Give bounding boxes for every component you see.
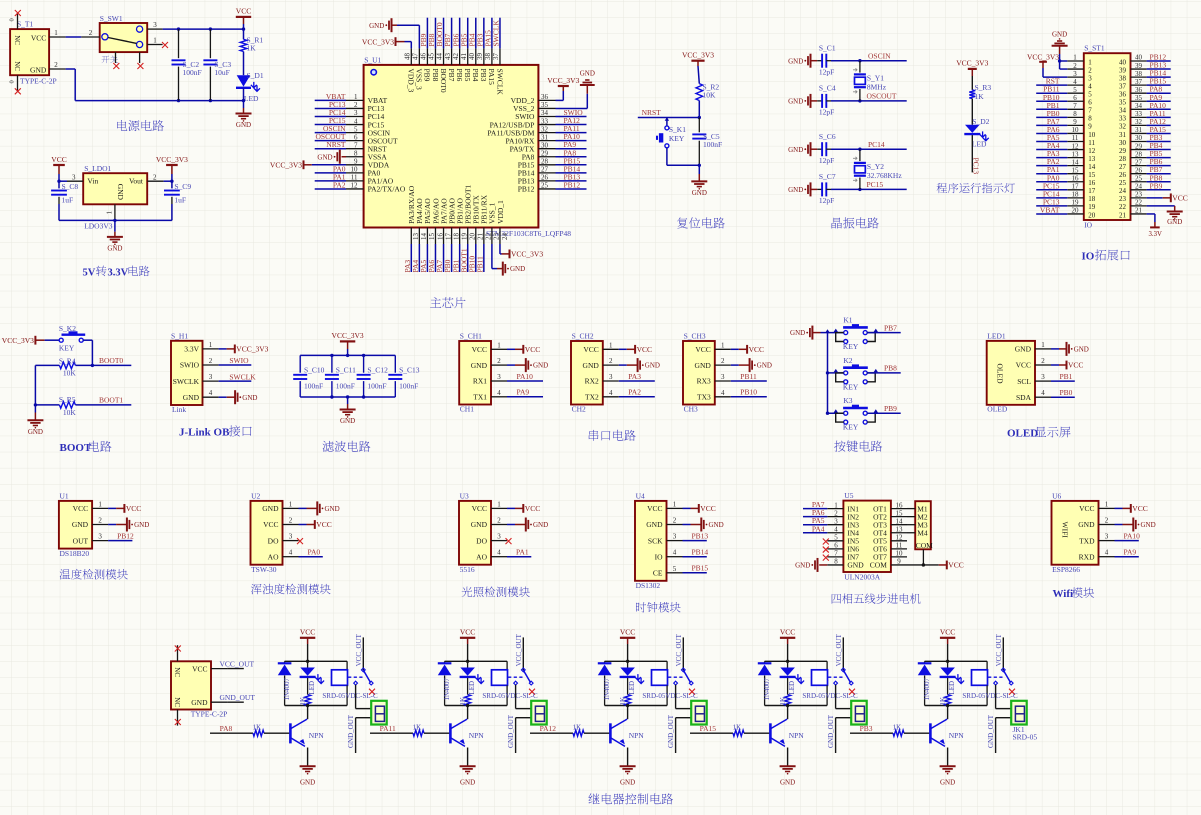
pin 21 of ST1 bbox=[1131, 207, 1147, 215]
svg-text:VBAT: VBAT bbox=[1040, 205, 1060, 214]
stub M COM pin down bbox=[922, 549, 924, 565]
power port 3.3V at ST1 pin21 bbox=[1147, 214, 1162, 238]
svg-text:SRD-05VDC-SL-C: SRD-05VDC-SL-C bbox=[802, 692, 858, 700]
wire and net label PB15 bbox=[556, 156, 587, 165]
pin 16 of ST1 bbox=[1067, 174, 1084, 182]
wire and net label BOOT1 bbox=[459, 244, 468, 273]
connector H1 J-Link bbox=[171, 332, 203, 415]
svg-text:GND: GND bbox=[788, 146, 803, 154]
pin 3 (DO) of U2 bbox=[283, 533, 299, 541]
svg-text:5: 5 bbox=[1088, 91, 1092, 99]
wire and net label PB3 bbox=[475, 18, 484, 49]
wire and net label PB6 bbox=[451, 18, 460, 49]
relay coil box 5 bbox=[972, 661, 988, 705]
wire collector to bottom rail (relay 4) bbox=[787, 706, 789, 720]
net label GND_OUT and wire bbox=[211, 693, 255, 702]
pin 22 (PB11/RX) of U1 bbox=[484, 228, 493, 245]
ground symbol (relay 5) bbox=[940, 765, 956, 767]
svg-text:KEY: KEY bbox=[59, 343, 75, 352]
svg-text:VCC: VCC bbox=[51, 155, 66, 164]
junction top rail C11 bbox=[330, 354, 333, 357]
svg-text:VCC: VCC bbox=[1079, 504, 1094, 513]
pin 45 (PB8) of U1 bbox=[428, 48, 436, 65]
no-connect top stub of TYPE-C-2P bbox=[175, 645, 181, 661]
svg-text:GND: GND bbox=[1167, 218, 1182, 226]
ground symbol at U5 GND bbox=[795, 558, 827, 572]
svg-text:GND: GND bbox=[30, 65, 47, 74]
capacitor C11 100nF bbox=[325, 355, 356, 397]
svg-text:12: 12 bbox=[1072, 142, 1080, 150]
wire and net label PB11 bbox=[475, 244, 484, 273]
wire and net label OSCIN bbox=[315, 124, 346, 133]
wire emitter to ground (relay 1) bbox=[307, 748, 309, 767]
pin 23 of ST1 bbox=[1131, 191, 1147, 199]
wire and net label PC14 bbox=[1036, 189, 1067, 198]
terminal block JK (relay 5) bbox=[1011, 701, 1026, 725]
wire and net label RST bbox=[1036, 77, 1067, 86]
svg-text:Vin: Vin bbox=[87, 177, 98, 186]
svg-text:GND: GND bbox=[191, 698, 208, 707]
svg-text:LED: LED bbox=[468, 681, 476, 695]
crystal S_Y1 8MHz bbox=[853, 61, 887, 101]
pin 3 (IN3) of U5 bbox=[827, 517, 843, 525]
svg-text:PA15: PA15 bbox=[700, 724, 717, 733]
terminal block JK (relay 2) bbox=[531, 701, 547, 725]
svg-text:S_K1: S_K1 bbox=[669, 125, 686, 134]
svg-text:17: 17 bbox=[1072, 183, 1080, 191]
svg-text:NC: NC bbox=[13, 61, 21, 71]
net label PA1 and wire bbox=[507, 548, 531, 557]
wire VCC to Vin bbox=[59, 180, 67, 182]
wire filter bottom rail bbox=[300, 396, 395, 398]
svg-text:DO: DO bbox=[476, 536, 487, 545]
ground symbol (relay 3) bbox=[620, 765, 636, 767]
svg-text:IO: IO bbox=[655, 552, 663, 561]
wire and net label PA2 bbox=[315, 180, 346, 189]
svg-text:15: 15 bbox=[1088, 171, 1096, 179]
svg-text:100nF: 100nF bbox=[399, 382, 418, 391]
pin 8 (VSSA) of U1 bbox=[346, 149, 364, 157]
wire NO contact to JK pin1 (relay 1) bbox=[356, 685, 372, 709]
wire rail to key K1 bbox=[828, 332, 844, 334]
ground symbol at U4 pin 2 bbox=[683, 518, 724, 532]
pin 19 (PB1/AO) of U1 bbox=[460, 228, 469, 245]
svg-text:PB12: PB12 bbox=[564, 180, 581, 189]
relay coil box 3 bbox=[652, 661, 668, 705]
svg-text:NRST: NRST bbox=[326, 140, 346, 149]
wire NO contact to JK pin1 (relay 4) bbox=[836, 685, 852, 709]
svg-text:4: 4 bbox=[497, 389, 501, 397]
svg-text:4: 4 bbox=[1105, 549, 1109, 557]
svg-text:VCC: VCC bbox=[940, 628, 955, 637]
svg-text:12pF: 12pF bbox=[819, 196, 834, 205]
power port VCC (LDO input) bbox=[51, 155, 66, 181]
wire rail to R4 bbox=[35, 365, 59, 405]
wire relay bottom rail 3 bbox=[605, 705, 668, 707]
svg-text:10: 10 bbox=[1072, 126, 1080, 134]
net label VCC_OUT and wire bbox=[211, 659, 255, 668]
svg-text:GND: GND bbox=[533, 521, 548, 529]
svg-text:2: 2 bbox=[98, 517, 102, 525]
svg-text:NC: NC bbox=[173, 667, 181, 677]
pin 20 of ST1 bbox=[1067, 207, 1084, 215]
svg-text:3: 3 bbox=[153, 21, 157, 29]
wire and net label PB7 bbox=[1147, 165, 1171, 174]
wire U5 OT2 to M pin 2 bbox=[907, 516, 915, 518]
pin 6 (OSCOUT) of U1 bbox=[346, 133, 364, 141]
svg-text:PA4: PA4 bbox=[812, 524, 825, 533]
pin 25 of ST1 bbox=[1131, 174, 1147, 182]
svg-text:SCL: SCL bbox=[1017, 377, 1031, 386]
power port VCC at CH2 bbox=[619, 345, 652, 354]
pin 2 of CH2 bbox=[603, 357, 619, 365]
pin 37 (SWCLK) of U1 bbox=[492, 48, 500, 65]
svg-text:SRD-05VDC-SL-C: SRD-05VDC-SL-C bbox=[962, 692, 1018, 700]
svg-text:27: 27 bbox=[541, 166, 549, 174]
wire and net label PA9 bbox=[1147, 93, 1171, 102]
svg-text:3: 3 bbox=[1041, 373, 1045, 381]
wire and net label PC15 bbox=[315, 116, 346, 125]
svg-text:U3: U3 bbox=[460, 491, 469, 500]
svg-text:25: 25 bbox=[1135, 174, 1143, 182]
svg-text:TSW-30: TSW-30 bbox=[251, 565, 277, 574]
svg-text:S_C12: S_C12 bbox=[367, 365, 388, 374]
svg-text:VCC: VCC bbox=[780, 628, 795, 637]
svg-text:48: 48 bbox=[404, 53, 412, 61]
connector ST1 IO header bbox=[1084, 44, 1131, 230]
svg-text:GND_OUT: GND_OUT bbox=[507, 714, 515, 748]
svg-text:GND: GND bbox=[72, 520, 89, 529]
svg-text:VDD_1: VDD_1 bbox=[496, 200, 505, 224]
pin 16 (PA6/AO) of U1 bbox=[435, 228, 444, 245]
junction VCC/top rail 1 bbox=[306, 660, 309, 663]
capacitor C5 100nF bbox=[692, 118, 722, 166]
svg-text:PB13: PB13 bbox=[692, 531, 709, 540]
svg-text:1N4007: 1N4007 bbox=[763, 677, 771, 700]
svg-text:19: 19 bbox=[1088, 203, 1096, 211]
wire NO contact to JK pin1 (relay 2) bbox=[516, 685, 532, 709]
pin 12 of ST1 bbox=[1067, 142, 1084, 150]
power port VCC_3V3 at ST1 pin3 bbox=[1027, 52, 1067, 77]
no-connect at U5 pin 6 bbox=[823, 547, 829, 553]
wire and net label PB10 bbox=[467, 244, 476, 273]
wire U5 OT3 to M pin 3 bbox=[907, 524, 915, 526]
pin 1 of LED1 bbox=[1035, 341, 1051, 349]
wire and net label PA15 bbox=[1147, 125, 1171, 134]
svg-text:LED1: LED1 bbox=[987, 332, 1006, 341]
svg-text:S_H1: S_H1 bbox=[171, 332, 188, 341]
pin 12 (PA2/TX/AO) of U1 bbox=[346, 182, 364, 190]
pin 31 (PA10/RX) of U1 bbox=[538, 133, 555, 141]
svg-text:VDD_3: VDD_3 bbox=[407, 69, 416, 93]
pin 14 (OT3) of U5 bbox=[891, 517, 907, 525]
svg-text:VCC: VCC bbox=[700, 504, 715, 513]
ground symbol (keys) bbox=[790, 326, 820, 340]
svg-text:2: 2 bbox=[1105, 517, 1109, 525]
svg-text:GND: GND bbox=[757, 362, 772, 370]
svg-text:1: 1 bbox=[1073, 54, 1077, 62]
svg-text:GND: GND bbox=[116, 184, 125, 201]
relay switch blade 2 bbox=[508, 668, 533, 685]
svg-text:VCC: VCC bbox=[637, 345, 652, 354]
svg-text:1: 1 bbox=[609, 341, 613, 349]
ground symbol at U3 pin 2 bbox=[507, 518, 548, 532]
svg-text:13: 13 bbox=[896, 525, 904, 533]
junction on top rail at C3 bbox=[209, 27, 212, 30]
svg-text:NRST: NRST bbox=[642, 108, 662, 117]
svg-text:VCC: VCC bbox=[263, 520, 278, 529]
svg-text:PB5: PB5 bbox=[463, 69, 472, 82]
pin 1 of ST1 bbox=[1067, 54, 1084, 62]
svg-text:10uF: 10uF bbox=[214, 68, 229, 77]
pin 2 stub of T1 bbox=[49, 61, 66, 69]
junction at OSCOUT bbox=[858, 99, 861, 102]
ground symbol filter bbox=[340, 397, 356, 425]
svg-text:1: 1 bbox=[721, 341, 725, 349]
pin 40 of ST1 bbox=[1131, 54, 1147, 62]
diode 1N4007 (relay 5) bbox=[918, 661, 932, 705]
svg-text:GND: GND bbox=[620, 779, 635, 787]
junction collector/bottom rail 3 bbox=[626, 704, 629, 707]
display LED1 OLED bbox=[987, 332, 1035, 414]
net label BOOT1 and wire bbox=[75, 396, 131, 405]
svg-text:100nF: 100nF bbox=[703, 140, 722, 149]
wire relay top rail 3 bbox=[605, 660, 668, 662]
wire rail to key K3 bbox=[828, 412, 844, 414]
pin 19 of ST1 bbox=[1067, 199, 1084, 207]
pin 9 of ST1 bbox=[1067, 118, 1084, 126]
power port VCC_3V3 at U1 VDDA bbox=[270, 160, 346, 169]
power port VCC at U4 pin 1 bbox=[683, 504, 716, 513]
LED (relay 3) bbox=[620, 661, 644, 694]
svg-text:100nF: 100nF bbox=[336, 382, 355, 391]
junction VCC/C8/Vin bbox=[57, 180, 60, 183]
pin 2 stub of LDO1 bbox=[147, 173, 163, 181]
svg-text:19: 19 bbox=[1072, 199, 1080, 207]
wire and net label PB6 bbox=[1147, 157, 1171, 166]
svg-text:PB7: PB7 bbox=[884, 323, 897, 332]
svg-text:S_R5: S_R5 bbox=[59, 395, 76, 404]
pin 6 of ST1 bbox=[1067, 94, 1084, 102]
svg-text:GND: GND bbox=[340, 417, 355, 425]
svg-text:VCC: VCC bbox=[1172, 194, 1187, 203]
svg-text:S_Y2: S_Y2 bbox=[867, 162, 884, 171]
power port VCC at U3 pin 1 bbox=[507, 504, 540, 513]
no-connect at U2 pin 3 bbox=[297, 538, 303, 544]
svg-text:1: 1 bbox=[834, 501, 838, 509]
ground symbol at U2 pin 1 bbox=[299, 501, 340, 515]
wire and net label PA9 bbox=[556, 140, 587, 149]
junction on bottom rail at C2 bbox=[177, 99, 180, 102]
power port VCC at CH1 bbox=[507, 345, 540, 354]
svg-text:VCC_3V3: VCC_3V3 bbox=[1027, 52, 1059, 61]
pin 24 (VDD_1) of U1 bbox=[500, 228, 509, 245]
wire and net label VBAT bbox=[315, 92, 346, 101]
svg-text:SWIO: SWIO bbox=[180, 361, 200, 370]
switch SW1 bbox=[100, 14, 148, 52]
svg-text:1: 1 bbox=[153, 37, 157, 45]
pin 4 (AO) of U3 bbox=[491, 549, 507, 557]
svg-text:28: 28 bbox=[1135, 150, 1143, 158]
wire U5 OT1 to M pin 1 bbox=[907, 508, 915, 510]
svg-text:3.3V: 3.3V bbox=[108, 267, 129, 278]
wire and net label PA1 bbox=[1036, 165, 1067, 174]
pin 3 of CH1 bbox=[491, 373, 507, 381]
svg-text:36: 36 bbox=[1135, 86, 1143, 94]
wire T1 VCC to SW1 pin 2 bbox=[66, 36, 82, 38]
svg-text:TX1: TX1 bbox=[473, 393, 487, 402]
svg-text:3: 3 bbox=[72, 173, 76, 181]
pin 4 of CH2 bbox=[603, 389, 619, 397]
ground symbol (relay 4) bbox=[780, 765, 796, 767]
svg-text:VCC: VCC bbox=[749, 345, 764, 354]
svg-text:18: 18 bbox=[1072, 191, 1080, 199]
svg-text:40: 40 bbox=[468, 53, 476, 61]
svg-text:33: 33 bbox=[541, 117, 549, 125]
terminal block JK (relay 3) bbox=[691, 701, 707, 725]
svg-text:Link: Link bbox=[172, 405, 186, 414]
relay switch blade 4 bbox=[828, 668, 853, 685]
wire and net label PB12 bbox=[556, 180, 587, 189]
power port VCC at U1 pin 1 bbox=[108, 504, 141, 513]
power port VCC_3V3 at U1 VDD_3 bbox=[362, 37, 411, 48]
svg-text:GND: GND bbox=[183, 393, 200, 402]
wire and net label VBAT bbox=[1036, 205, 1067, 214]
title IO拓展口 bbox=[1082, 249, 1130, 262]
svg-text:4: 4 bbox=[209, 389, 213, 397]
svg-text:4: 4 bbox=[497, 549, 501, 557]
terminal block JK (relay 4) bbox=[851, 701, 867, 725]
svg-text:41: 41 bbox=[460, 53, 468, 61]
pin 1 of CH2 bbox=[603, 341, 619, 349]
svg-text:32.768KHz: 32.768KHz bbox=[867, 171, 902, 180]
pin 18 (PB0/AO) of U1 bbox=[452, 228, 461, 245]
svg-text:RXD: RXD bbox=[1079, 552, 1095, 561]
svg-text:DO: DO bbox=[268, 536, 279, 545]
svg-text:100nF: 100nF bbox=[367, 382, 386, 391]
svg-text:LED: LED bbox=[244, 94, 259, 103]
wire NO contact to JK pin1 (relay 5) bbox=[996, 685, 1012, 709]
svg-text:SWCLK: SWCLK bbox=[495, 69, 504, 96]
svg-text:NPN: NPN bbox=[309, 731, 325, 740]
wire and net label PB0 bbox=[1036, 109, 1067, 118]
push button K1 bbox=[834, 316, 878, 352]
wire relay top rail 4 bbox=[765, 660, 828, 662]
junction bottom rail C11 bbox=[330, 395, 333, 398]
pin 2 stub of SW1 bbox=[81, 29, 99, 37]
svg-text:1K: 1K bbox=[573, 723, 582, 731]
svg-text:VCC: VCC bbox=[73, 504, 88, 513]
pin 30 (PA9/TX) of U1 bbox=[538, 141, 555, 149]
svg-text:9: 9 bbox=[897, 558, 901, 566]
wire filter top rail bbox=[300, 354, 395, 356]
no-connect on blade end 5 bbox=[1009, 689, 1015, 695]
svg-text:5516: 5516 bbox=[460, 565, 475, 574]
svg-text:S_C13: S_C13 bbox=[399, 365, 420, 374]
wire and net label PA7 bbox=[803, 500, 827, 509]
title 光照检测模块 bbox=[462, 587, 473, 597]
pin 29 (PA8) of U1 bbox=[538, 149, 555, 157]
pin 13 of ST1 bbox=[1067, 150, 1084, 158]
wire T1 GND to bottom rail bbox=[66, 69, 76, 101]
pin 40 (PB4) of U1 bbox=[468, 48, 476, 65]
no-connect on blade end 2 bbox=[529, 689, 535, 695]
wire emitter to ground (relay 2) bbox=[467, 748, 469, 767]
svg-text:1: 1 bbox=[497, 341, 501, 349]
svg-text:SRD-05VDC-SL-C: SRD-05VDC-SL-C bbox=[322, 692, 378, 700]
LED D1 bbox=[236, 71, 264, 103]
net label PA9 and wire bbox=[507, 388, 543, 397]
pin 2 (GND) of U4 bbox=[667, 517, 683, 525]
svg-text:S_C7: S_C7 bbox=[819, 172, 836, 181]
pin 5 (CE) of U4 bbox=[667, 565, 683, 573]
svg-text:CE: CE bbox=[653, 569, 663, 578]
svg-text:ULN2003A: ULN2003A bbox=[844, 573, 880, 582]
wire and net label PA5 bbox=[803, 516, 827, 525]
svg-text:LED: LED bbox=[308, 681, 316, 695]
svg-text:COM: COM bbox=[870, 561, 887, 570]
svg-text:SWCLK: SWCLK bbox=[173, 377, 200, 386]
svg-text:5: 5 bbox=[1073, 86, 1077, 94]
svg-text:7: 7 bbox=[354, 141, 358, 149]
pin 27 (PB14) of U1 bbox=[538, 166, 555, 174]
wire JK pin2 with rotated label GND_OUT (relay 1) bbox=[347, 714, 371, 753]
svg-text:30: 30 bbox=[1135, 134, 1143, 142]
svg-text:34: 34 bbox=[1119, 107, 1127, 115]
input wire with net label PA8 and series resistor 1K (relay 1) bbox=[210, 723, 289, 736]
title Wifi模块 bbox=[1053, 587, 1095, 600]
svg-text:30: 30 bbox=[541, 141, 549, 149]
pin 44 (BOOT0) of U1 bbox=[436, 48, 444, 65]
pin 3 of CH3 bbox=[715, 373, 731, 381]
svg-text:GND: GND bbox=[695, 361, 712, 370]
svg-text:27: 27 bbox=[1135, 158, 1143, 166]
svg-text:29: 29 bbox=[1119, 147, 1127, 155]
svg-text:26: 26 bbox=[541, 174, 549, 182]
wire and net label PA6 bbox=[427, 244, 436, 273]
power port VCC (relay 4) bbox=[780, 628, 795, 662]
svg-text:1K: 1K bbox=[459, 697, 467, 706]
wire K2 to BOOT0 node bbox=[83, 340, 92, 365]
svg-text:3.3V: 3.3V bbox=[184, 345, 199, 354]
wire and net label PC13 bbox=[315, 100, 346, 109]
svg-text:BOOT0: BOOT0 bbox=[99, 356, 123, 365]
svg-text:PA11: PA11 bbox=[380, 724, 396, 733]
svg-text:30: 30 bbox=[1119, 139, 1127, 147]
svg-text:28: 28 bbox=[541, 158, 549, 166]
svg-text:VCC: VCC bbox=[472, 504, 487, 513]
net label PA10 and wire bbox=[1115, 531, 1141, 540]
pin 16 (OT1) of U5 bbox=[891, 501, 907, 509]
svg-text:27: 27 bbox=[1119, 163, 1127, 171]
ground symbol at U1 VSS_1 bbox=[492, 244, 525, 276]
svg-text:NPN: NPN bbox=[469, 731, 485, 740]
svg-text:16: 16 bbox=[896, 501, 904, 509]
svg-text:SRD-05VDC-SL-C: SRD-05VDC-SL-C bbox=[642, 692, 698, 700]
svg-text:VCC: VCC bbox=[192, 665, 207, 674]
relay switch blade 3 bbox=[668, 668, 693, 685]
svg-text:11: 11 bbox=[1072, 134, 1079, 142]
resistor R3 1K bbox=[969, 83, 991, 101]
svg-text:11: 11 bbox=[896, 542, 903, 550]
svg-text:WIFI: WIFI bbox=[1061, 522, 1070, 539]
svg-text:1: 1 bbox=[209, 341, 213, 349]
pin 2 (VCC) of U2 bbox=[283, 517, 299, 525]
svg-text:15: 15 bbox=[1072, 166, 1080, 174]
svg-text:12: 12 bbox=[351, 182, 359, 190]
svg-text:KEY: KEY bbox=[843, 382, 859, 391]
svg-text:VCC: VCC bbox=[525, 504, 540, 513]
